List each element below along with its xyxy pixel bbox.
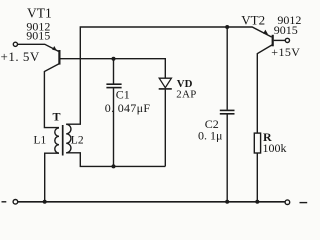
svg-text:2AP: 2AP bbox=[176, 88, 196, 100]
svg-text:+1. 5V: +1. 5V bbox=[1, 49, 40, 64]
svg-text:L1: L1 bbox=[34, 135, 47, 147]
svg-text:L2: L2 bbox=[71, 135, 84, 147]
svg-text:C1: C1 bbox=[116, 88, 130, 102]
svg-text:+15V: +15V bbox=[271, 45, 300, 59]
svg-text:100k: 100k bbox=[263, 141, 287, 155]
svg-text:9015: 9015 bbox=[26, 28, 50, 42]
svg-text:0. 1μ: 0. 1μ bbox=[198, 129, 222, 143]
svg-text:VT2: VT2 bbox=[241, 13, 265, 28]
svg-text:0. 047μF: 0. 047μF bbox=[105, 101, 151, 115]
svg-text:T: T bbox=[53, 109, 61, 123]
svg-text:VT1: VT1 bbox=[27, 5, 52, 20]
svg-text:9015: 9015 bbox=[274, 23, 298, 37]
